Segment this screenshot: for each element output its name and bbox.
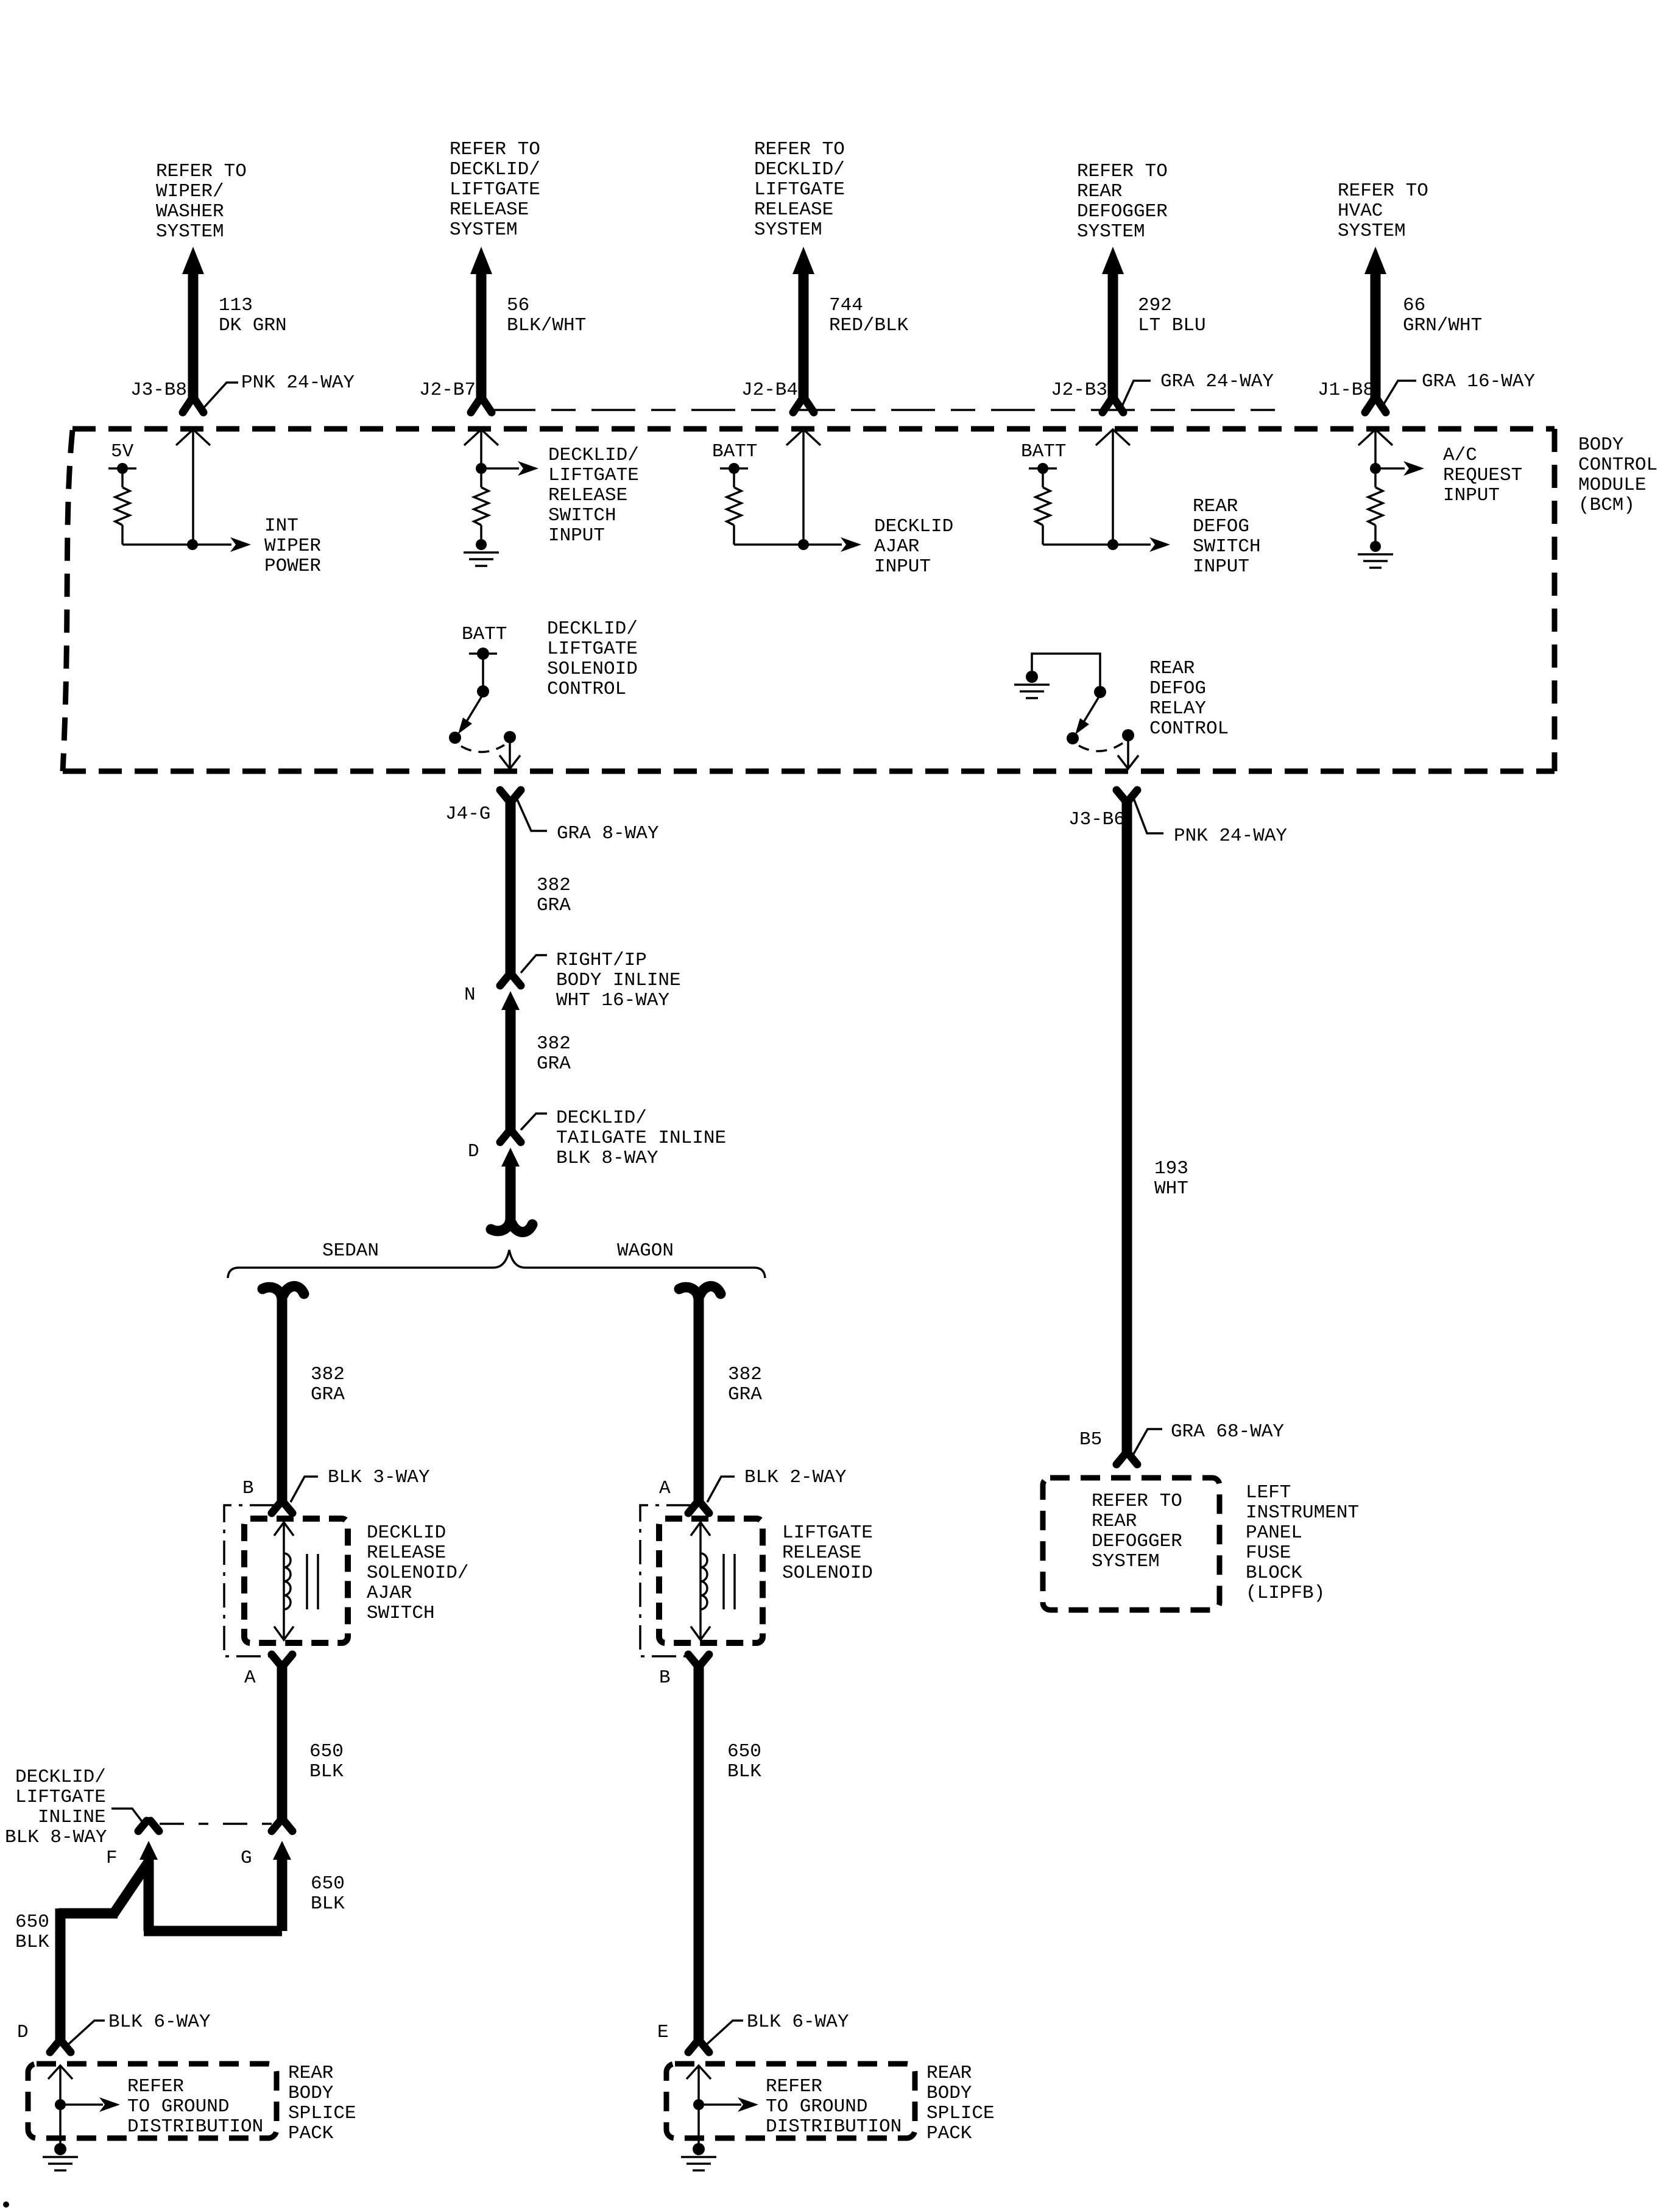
connector label DECKLID/TAILGATE INLINE BLK 8-WAY <box>521 1114 547 1130</box>
svg-text:BLK 6-WAY: BLK 6-WAY <box>747 2011 849 2033</box>
connector label GRA 8-WAY <box>516 797 547 831</box>
connector label GRA 24-WAY <box>1121 381 1151 408</box>
svg-text:DECKLID/: DECKLID/ <box>15 1767 106 1788</box>
svg-text:RIGHT/IPBODY INLINEWHT 16-WAY: RIGHT/IPBODY INLINEWHT 16-WAY <box>556 950 681 1011</box>
wire 650 BLK to rear body splice pack D <box>55 1908 66 2042</box>
svg-text:A: A <box>659 1478 671 1499</box>
svg-text:REFER TOWIPER/WASHERSYSTEM: REFER TOWIPER/WASHERSYSTEM <box>156 161 247 242</box>
svg-text:REFER TOHVACSYSTEM: REFER TOHVACSYSTEM <box>1338 180 1428 242</box>
svg-text:J3-B6: J3-B6 <box>1068 809 1125 830</box>
resistor R5 pull-down <box>1374 468 1377 487</box>
svg-text:382GRA: 382GRA <box>728 1364 762 1405</box>
connector bracket sedan <box>224 1505 274 1656</box>
svg-text:BATT: BATT <box>1021 441 1066 462</box>
wire 382 GRA segment 3 <box>506 1162 516 1210</box>
connector: decklid/tailgate inline D female half <box>500 1132 509 1142</box>
svg-text:GRA 8-WAY: GRA 8-WAY <box>557 823 659 844</box>
svg-text:G: G <box>241 1848 252 1869</box>
wire + junction <box>734 543 803 546</box>
svg-text:GRA 16-WAY: GRA 16-WAY <box>1422 371 1535 392</box>
svg-text:650BLK: 650BLK <box>727 1741 761 1782</box>
wire + junction <box>122 543 192 546</box>
wire: J2-B3 input sense line <box>1096 429 1130 445</box>
connector label GRA 68-WAY <box>1132 1429 1162 1457</box>
svg-text:292LT BLU: 292LT BLU <box>1138 295 1206 336</box>
artifact dot <box>3 2201 9 2208</box>
svg-text:J2-B7: J2-B7 <box>419 380 476 401</box>
svg-text:GRA 68-WAY: GRA 68-WAY <box>1171 1421 1284 1442</box>
wire 650 BLK sedan <box>277 1662 288 1820</box>
svg-text:INLINE: INLINE <box>38 1807 106 1828</box>
svg-text:J2-B3: J2-B3 <box>1051 380 1107 401</box>
connector: right/IP body inline N female half <box>500 975 509 986</box>
svg-text:66GRN/WHT: 66GRN/WHT <box>1403 295 1482 336</box>
svg-text:650BLK: 650BLK <box>15 1912 49 1953</box>
connector label BLK 3-WAY <box>291 1477 318 1502</box>
svg-text:LEFTINSTRUMENTPANELFUSEBLOCK(L: LEFTINSTRUMENTPANELFUSEBLOCK(LIPFB) <box>1246 1482 1359 1604</box>
svg-text:E: E <box>657 2022 669 2043</box>
svg-text:56BLK/WHT: 56BLK/WHT <box>507 295 586 336</box>
svg-text:REFERTO GROUNDDISTRIBUTION: REFERTO GROUNDDISTRIBUTION <box>127 2076 263 2138</box>
connector: right/IP body inline N male half <box>501 991 520 1010</box>
svg-text:REARDEFOGSWITCHINPUT: REARDEFOGSWITCHINPUT <box>1193 496 1261 577</box>
svg-text:F: F <box>106 1848 118 1869</box>
svg-text:A/CREQUESTINPUT: A/CREQUESTINPUT <box>1443 445 1522 506</box>
wire 382 GRA segment 2 <box>506 1006 516 1131</box>
off-page arrow wire 56 BLK/WHT <box>470 247 492 274</box>
ground: rear body splice pack (wagon) <box>666 2064 915 2138</box>
svg-text:INTWIPERPOWER: INTWIPERPOWER <box>264 515 321 577</box>
svg-text:REFER TOREARDEFOGGERSYSTEM: REFER TOREARDEFOGGERSYSTEM <box>1092 1491 1182 1572</box>
svg-text:193WHT: 193WHT <box>1154 1158 1188 1199</box>
svg-text:BATT: BATT <box>712 441 757 462</box>
svg-text:382GRA: 382GRA <box>537 875 571 916</box>
wire: J3-B8 input sense line <box>176 429 210 445</box>
svg-text:N: N <box>464 984 476 1006</box>
LIPFB dashed box <box>1043 1478 1219 1610</box>
connector: decklid/tailgate inline D male half <box>501 1148 520 1167</box>
ground 2 <box>1370 541 1381 552</box>
svg-text:650BLK: 650BLK <box>311 1873 345 1915</box>
svg-text:PNK 24-WAY: PNK 24-WAY <box>1174 825 1287 847</box>
splice option curl sedan <box>263 1286 304 1310</box>
wire + junction <box>1043 543 1113 546</box>
wire: J2-B7 input sense line <box>464 429 498 445</box>
connector: G male half <box>273 1841 291 1860</box>
wire 382 GRA wagon <box>694 1308 704 1502</box>
svg-text:A: A <box>244 1667 256 1689</box>
svg-text:5V: 5V <box>111 441 134 462</box>
connector label PNK 24-WAY <box>203 383 238 409</box>
svg-text:BLK 8-WAY: BLK 8-WAY <box>5 1827 107 1848</box>
connector label RIGHT/IP BODY INLINE WHT 16-WAY <box>521 955 547 973</box>
wire: J2-B4 input sense line <box>786 429 821 445</box>
connector label PNK 24-WAY 2 <box>1133 797 1163 833</box>
svg-text:REFERTO GROUNDDISTRIBUTION: REFERTO GROUNDDISTRIBUTION <box>766 2076 902 2138</box>
coil L1 <box>284 1553 291 1609</box>
splice option curl wagon <box>679 1286 721 1310</box>
resistor R3 pull-up <box>733 468 735 487</box>
connector: F male half <box>139 1841 158 1860</box>
connector label BLK 2-WAY <box>707 1477 735 1502</box>
svg-text:D: D <box>17 2022 29 2043</box>
resistor R2 pull-down <box>480 468 482 487</box>
svg-text:LIFTGATERELEASESOLENOID: LIFTGATERELEASESOLENOID <box>782 1522 873 1584</box>
svg-text:BATT: BATT <box>462 624 507 645</box>
connector label BLK 6-WAY <box>67 2021 105 2046</box>
svg-text:J1-B8: J1-B8 <box>1318 380 1374 401</box>
svg-text:113DK GRN: 113DK GRN <box>219 295 287 336</box>
resistor R1 pull-up <box>121 468 124 487</box>
svg-text:DECKLID/LIFTGATESOLENOIDCONTRO: DECKLID/LIFTGATESOLENOIDCONTROL <box>547 618 638 700</box>
connector: decklid/liftgate inline F female half <box>138 1821 147 1831</box>
svg-text:REFER TODECKLID/LIFTGATERELEAS: REFER TODECKLID/LIFTGATERELEASESYSTEM <box>450 139 540 241</box>
off-page arrow wire 66 GRN/WHT <box>1364 247 1386 274</box>
svg-text:WAGON: WAGON <box>617 1240 674 1262</box>
ground: rear body splice pack (sedan) <box>28 2064 277 2138</box>
svg-text:GRA 24-WAY: GRA 24-WAY <box>1160 371 1274 392</box>
BCM U1 body control module dashed box <box>72 426 1555 432</box>
solenoid L1 DECKLID RELEASE SOLENOID/AJAR SWITCH box <box>244 1519 348 1643</box>
svg-text:744RED/BLK: 744RED/BLK <box>829 295 909 336</box>
wire: diagonal to ground leg <box>114 1863 148 1913</box>
wire: J1-B8 input sense line <box>1358 429 1392 445</box>
off-page arrow wire 744 RED/BLK <box>792 247 814 274</box>
svg-text:BLK 3-WAY: BLK 3-WAY <box>328 1467 430 1488</box>
svg-text:DECKLID/TAILGATE INLINEBLK 8-W: DECKLID/TAILGATE INLINEBLK 8-WAY <box>556 1107 726 1169</box>
connector: decklid/liftgate inline G female half <box>272 1821 280 1831</box>
svg-text:DECKLIDRELEASESOLENOID/AJARSWI: DECKLIDRELEASESOLENOID/AJARSWITCH <box>367 1522 468 1624</box>
wire 382 GRA sedan <box>277 1308 288 1502</box>
svg-text:B: B <box>659 1667 671 1689</box>
svg-text:DECKLIDAJARINPUT: DECKLIDAJARINPUT <box>874 516 953 577</box>
svg-text:382GRA: 382GRA <box>311 1364 345 1405</box>
ground 3 <box>1026 671 1038 683</box>
svg-text:B5: B5 <box>1079 1429 1102 1450</box>
svg-text:650BLK: 650BLK <box>309 1741 344 1782</box>
svg-text:BLK 2-WAY: BLK 2-WAY <box>744 1467 847 1488</box>
svg-text:382GRA: 382GRA <box>537 1033 571 1075</box>
wire: inline connector dash link <box>160 1823 272 1825</box>
svg-text:REARDEFOGRELAYCONTROL: REARDEFOGRELAYCONTROL <box>1149 658 1229 740</box>
wire: F leg <box>144 1856 154 1931</box>
svg-text:B: B <box>242 1478 254 1499</box>
coil L2 <box>701 1553 707 1609</box>
svg-text:J2-B4: J2-B4 <box>741 380 798 401</box>
svg-text:PNK 24-WAY: PNK 24-WAY <box>241 372 355 394</box>
connector label BLK 6-WAY 2 <box>705 2021 743 2046</box>
off-page arrow wire 292 LT BLU <box>1102 247 1124 274</box>
wire 193 WHT from J3-B6 <box>1117 790 1125 800</box>
option brace <box>228 1250 765 1278</box>
solenoid L2 LIFTGATE RELEASE SOLENOID box <box>659 1519 763 1643</box>
resistor R4 pull-up <box>1042 468 1044 487</box>
svg-text:LIFTGATE: LIFTGATE <box>15 1787 106 1808</box>
ground <box>476 539 487 550</box>
svg-text:DECKLID/LIFTGATERELEASESWITCHI: DECKLID/LIFTGATERELEASESWITCHINPUT <box>548 445 639 546</box>
svg-text:BLK 6-WAY: BLK 6-WAY <box>108 2011 211 2033</box>
wire 650 BLK wagon <box>694 1662 704 2042</box>
svg-text:REFER TODECKLID/LIFTGATERELEAS: REFER TODECKLID/LIFTGATERELEASESYSTEM <box>754 139 845 241</box>
wire 382 GRA from J4-G <box>500 790 509 800</box>
wire: connector dash line <box>492 409 1286 411</box>
connector label GRA 16-WAY <box>1381 381 1416 409</box>
svg-text:BODYCONTROLMODULE(BCM): BODYCONTROLMODULE(BCM) <box>1578 434 1657 516</box>
svg-text:SEDAN: SEDAN <box>322 1240 379 1262</box>
splice option curl <box>491 1209 532 1232</box>
svg-text:D: D <box>468 1141 479 1162</box>
svg-text:REARBODYSPLICEPACK: REARBODYSPLICEPACK <box>288 2063 356 2144</box>
svg-text:REFER TOREARDEFOGGERSYSTEM: REFER TOREARDEFOGGERSYSTEM <box>1077 161 1168 242</box>
connector bracket wagon <box>640 1505 691 1656</box>
wire: G leg <box>277 1856 288 1931</box>
off-page arrow wire 113 DK GRN <box>182 247 204 274</box>
wire: F-G jumper <box>144 1926 282 1936</box>
svg-text:J4-G: J4-G <box>445 803 490 825</box>
svg-text:REARBODYSPLICEPACK: REARBODYSPLICEPACK <box>926 2063 995 2144</box>
svg-text:J3-B8: J3-B8 <box>130 380 187 401</box>
